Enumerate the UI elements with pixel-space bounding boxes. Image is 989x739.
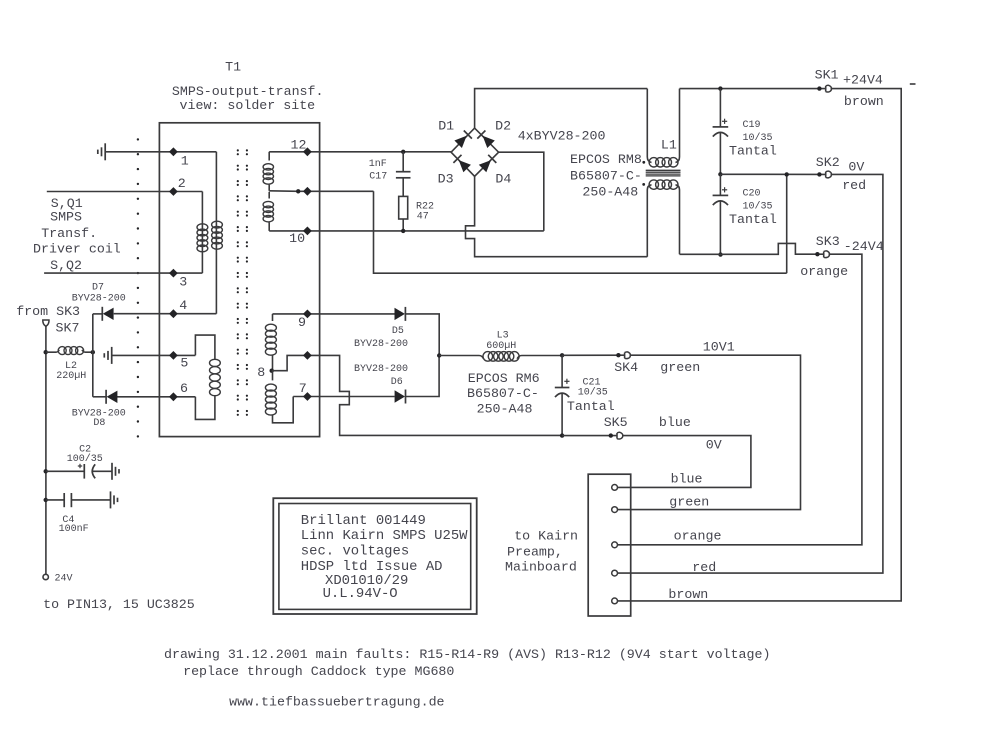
node pin 12 — [291, 137, 312, 156]
wire D6 to junction — [406, 356, 439, 397]
node L3 out — [560, 353, 564, 357]
svg-text:S,Q2: S,Q2 — [50, 258, 82, 273]
inductor L3 — [439, 330, 562, 361]
wire pin 3 to S,Q2 — [44, 272, 202, 274]
svg-text:1: 1 — [181, 153, 189, 168]
svg-text:1nF: 1nF — [369, 159, 387, 170]
diode D8 — [72, 390, 126, 429]
diode D5 — [354, 307, 408, 350]
svg-text:SK7: SK7 — [56, 320, 80, 335]
svg-text:orange: orange — [800, 264, 848, 279]
label to Kairn Preamp Mainboard — [505, 529, 578, 575]
wire riser to D8 — [93, 396, 106, 398]
capacitor C21 — [555, 355, 615, 435]
wire tap 8 to 0V rail (hop over pin7 wire) — [272, 351, 562, 435]
svg-text:green: green — [669, 495, 709, 510]
node C19 top — [718, 86, 722, 90]
svg-text:Tantal: Tantal — [567, 399, 615, 414]
svg-text:600µH: 600µH — [486, 341, 516, 352]
transformer T1 core box — [159, 123, 319, 437]
wire pin 12 to bridge — [269, 151, 451, 153]
label driver coil — [33, 196, 121, 273]
terminal SK1 — [815, 68, 916, 110]
svg-text:2: 2 — [178, 176, 186, 191]
label box Brillant — [273, 498, 476, 614]
svg-text:10: 10 — [289, 231, 305, 246]
node pin 6 — [169, 381, 188, 401]
wire bridge - output (hop over pin10 wire) — [466, 176, 648, 256]
wire SK2 to red — [618, 174, 883, 573]
svg-text:D8: D8 — [93, 418, 105, 429]
svg-text:3: 3 — [179, 275, 187, 290]
node pin 3 — [169, 269, 187, 290]
node pin 2 — [169, 176, 186, 196]
wire SK7 rail — [45, 326, 47, 574]
svg-text:220µH: 220µH — [56, 371, 86, 382]
node pin 9 — [298, 310, 312, 330]
svg-text:0V: 0V — [706, 437, 722, 452]
wire S,Q1 to pin 2 — [47, 191, 203, 193]
wire 0V line to SK2 — [720, 173, 826, 175]
svg-text:0V: 0V — [848, 160, 864, 175]
svg-text:D7: D7 — [92, 283, 104, 294]
svg-text:8: 8 — [257, 365, 265, 380]
T1 primary winding 1-4 — [212, 152, 223, 314]
svg-text:to PIN13, 15 UC3825: to PIN13, 15 UC3825 — [43, 597, 195, 612]
svg-text:+24V4: +24V4 — [843, 72, 883, 87]
terminal SK2 — [816, 155, 866, 193]
wire pin 5 — [112, 335, 215, 360]
svg-text:EPCOS RM6: EPCOS RM6 — [468, 371, 540, 386]
svg-text:BYV28-200: BYV28-200 — [354, 364, 408, 375]
svg-text:D3: D3 — [438, 171, 454, 186]
svg-text:orange: orange — [674, 529, 722, 544]
wire riser to D7 — [93, 313, 102, 315]
svg-text:Tantal: Tantal — [729, 212, 777, 227]
wire 0V riser from center tap — [786, 174, 788, 273]
inductor L2 — [46, 347, 93, 382]
svg-text:blue: blue — [671, 472, 703, 487]
svg-text:D5: D5 — [392, 326, 404, 337]
wire pin 9 — [273, 313, 395, 315]
label EPCOS RM6 — [467, 371, 540, 416]
svg-text:D6: D6 — [391, 377, 403, 388]
node C20 bottom — [718, 252, 722, 256]
terminal 24V — [43, 574, 73, 585]
svg-text:C20: C20 — [743, 188, 761, 199]
node pin 5 — [169, 351, 188, 371]
diode D1 — [438, 119, 472, 148]
svg-text:T1: T1 — [225, 60, 241, 75]
T1 center core colon columns — [237, 149, 248, 416]
label 4xBYV28-200 — [518, 128, 606, 143]
inductor L1 top winding — [647, 89, 679, 167]
label EPCOS RM8 — [570, 152, 642, 200]
diode D6 — [354, 364, 408, 403]
terminal SK7 — [43, 320, 80, 335]
note website — [229, 695, 444, 710]
wire D8 to pin 6 — [116, 396, 195, 398]
svg-text:D4: D4 — [495, 171, 511, 186]
svg-text:C19: C19 — [743, 120, 761, 131]
T1 secondary winding 12-tap — [263, 152, 273, 191]
svg-text:7: 7 — [299, 381, 307, 396]
svg-text:red: red — [842, 178, 866, 193]
svg-text:10/35: 10/35 — [743, 200, 773, 212]
svg-text:24V: 24V — [55, 574, 73, 585]
capacitor C2 — [46, 445, 112, 479]
diode D2 — [477, 119, 511, 148]
note main faults — [164, 647, 770, 679]
svg-text:SK1: SK1 — [815, 68, 839, 83]
inductor L1 bottom winding — [647, 180, 679, 257]
node pin 10 — [289, 227, 312, 246]
svg-text:12: 12 — [291, 137, 307, 152]
svg-text:100/35: 100/35 — [67, 453, 103, 465]
svg-text:Linn Kairn SMPS U25W: Linn Kairn SMPS U25W — [301, 528, 468, 544]
svg-text:250-A48: 250-A48 — [582, 184, 638, 199]
svg-text:red: red — [692, 560, 716, 575]
svg-text:drawing 31.12.2001 main faults: drawing 31.12.2001 main faults: R15-R14-… — [164, 647, 770, 662]
svg-text:SK4: SK4 — [614, 360, 638, 375]
node L2 right — [91, 350, 95, 354]
terminal SK4 — [562, 339, 735, 374]
label from SK3 — [16, 304, 80, 319]
node pin 1 — [169, 147, 189, 168]
wire D5 to junction — [406, 314, 440, 356]
node C17 top — [401, 150, 405, 154]
svg-text:view: solder site: view: solder site — [180, 98, 316, 113]
node C19-C20 mid — [718, 172, 722, 176]
svg-text:blue: blue — [659, 415, 691, 430]
svg-text:6: 6 — [180, 381, 188, 396]
node pin 7 — [299, 381, 312, 401]
wire bridge + output rail — [475, 89, 648, 129]
T1 driver winding 2-3 — [197, 192, 208, 274]
capacitor C17 — [369, 152, 411, 197]
svg-text:Driver coil: Driver coil — [33, 242, 121, 257]
wire D7-D8 riser — [92, 314, 94, 397]
capacitor C4 — [46, 493, 111, 535]
svg-text:Brillant 001449: Brillant 001449 — [301, 513, 426, 529]
inductor L1 core — [646, 170, 681, 176]
svg-text:L3: L3 — [497, 330, 509, 341]
T1 winding 5-6 — [195, 359, 220, 419]
svg-text:D1: D1 — [438, 119, 454, 134]
svg-text:10/35: 10/35 — [743, 132, 773, 144]
node L2 left — [44, 350, 48, 354]
svg-text:B65807-C-: B65807-C- — [467, 386, 539, 401]
svg-text:to Kairn: to Kairn — [514, 529, 578, 544]
svg-text:Preamp,: Preamp, — [507, 545, 563, 560]
svg-text:from SK3: from SK3 — [16, 304, 80, 319]
wire D7 to pin 4 — [114, 313, 217, 315]
wire center tap to 0V riser — [374, 191, 787, 273]
ground (C2) — [112, 463, 119, 480]
node C4 junction — [44, 498, 48, 502]
svg-text:U.L.94V-O: U.L.94V-O — [323, 586, 398, 602]
svg-text:9: 9 — [298, 315, 306, 330]
node pin 4 — [169, 298, 187, 318]
wire pin1 — [105, 151, 216, 153]
svg-text:10V1: 10V1 — [703, 339, 735, 354]
T1 secondary winding 9-8 — [265, 314, 276, 371]
capacitor C19 — [713, 89, 777, 175]
T1 secondary center tap — [269, 187, 373, 196]
terminal SK3 — [800, 234, 884, 279]
svg-text:EPCOS RM8: EPCOS RM8 — [570, 152, 642, 167]
connector wire labels — [668, 472, 721, 602]
node riser top — [785, 172, 789, 176]
wire pin 10 to bridge — [269, 152, 544, 231]
connector to Kairn preamp — [588, 474, 631, 616]
ground (C4) — [111, 491, 118, 508]
svg-text:SMPS-output-transf.: SMPS-output-transf. — [172, 84, 324, 99]
terminal SK5 — [562, 415, 722, 452]
svg-text:100nF: 100nF — [59, 524, 89, 535]
svg-text:250-A48: 250-A48 — [477, 401, 533, 416]
wire bridge frame — [451, 128, 499, 176]
wire pin 7 — [293, 396, 394, 398]
svg-text:D2: D2 — [495, 119, 511, 134]
svg-text:SK2: SK2 — [816, 155, 840, 170]
svg-text:4: 4 — [179, 298, 187, 313]
transformer T1 label — [172, 60, 324, 113]
svg-text:BYV28-200: BYV28-200 — [354, 339, 408, 350]
svg-text:brown: brown — [844, 94, 884, 109]
svg-text:replace through Caddock type M: replace through Caddock type MG680 — [183, 664, 454, 679]
svg-text:C17: C17 — [369, 172, 387, 183]
ground (pin 5) — [104, 347, 111, 364]
ground (pin 1) — [98, 143, 105, 160]
svg-text:www.tiefbassuebertragung.de: www.tiefbassuebertragung.de — [229, 695, 444, 710]
svg-text:Tantal: Tantal — [729, 144, 777, 159]
wire SK3 to orange — [618, 254, 862, 545]
wire SK4 to green — [618, 355, 801, 509]
svg-text:sec. voltages: sec. voltages — [301, 544, 409, 560]
node C2 junction — [44, 469, 48, 473]
node D5-D6 junction — [437, 353, 441, 357]
T1 secondary winding tap-10 — [263, 192, 273, 231]
svg-text:SMPS: SMPS — [50, 210, 82, 225]
diode D7 — [72, 283, 126, 321]
L1 phase dots — [642, 161, 645, 186]
svg-text:SK3: SK3 — [816, 234, 840, 249]
wire SK5 to blue — [618, 436, 751, 488]
node 8 (tap) — [257, 365, 274, 380]
wire +24V rail — [680, 88, 827, 90]
svg-text:brown: brown — [668, 587, 708, 602]
wire -24V to SK3 (hop over riser) — [680, 243, 825, 254]
node R22 bottom — [401, 229, 405, 233]
diode D4 — [479, 155, 512, 187]
T1 secondary winding 8-7 — [265, 371, 293, 423]
resistor R22 — [399, 196, 434, 231]
svg-text:-24V4: -24V4 — [844, 239, 884, 254]
svg-text:SK5: SK5 — [604, 415, 628, 430]
svg-text:green: green — [660, 360, 700, 375]
svg-text:BYV28-200: BYV28-200 — [72, 293, 126, 304]
wire SK1 to brown — [618, 89, 902, 601]
T1 left lamination dot column — [137, 138, 139, 437]
svg-text:B65807-C-: B65807-C- — [570, 168, 642, 183]
svg-text:4xBYV28-200: 4xBYV28-200 — [518, 128, 606, 143]
svg-text:Transf.: Transf. — [41, 226, 97, 241]
svg-text:5: 5 — [180, 356, 188, 371]
capacitor C20 — [713, 174, 777, 254]
svg-text:L1: L1 — [661, 138, 677, 153]
node C21 bottom — [560, 433, 564, 437]
connector pins — [612, 485, 618, 604]
svg-text:47: 47 — [417, 212, 429, 223]
svg-text:Mainboard: Mainboard — [505, 559, 577, 574]
diode D3 — [438, 155, 471, 187]
label to PIN13 15 UC3825 — [43, 597, 195, 612]
svg-text:10/35: 10/35 — [578, 387, 608, 399]
label L1 — [661, 138, 677, 153]
